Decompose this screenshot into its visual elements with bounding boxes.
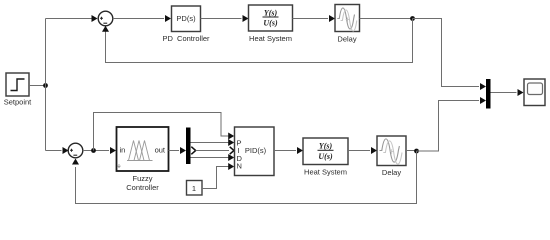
- svg-text:PID(s): PID(s): [245, 146, 267, 155]
- wire PID to HS2: [274, 150, 296, 152]
- wire constant to N: [202, 167, 233, 189]
- svg-text:Y(s): Y(s): [319, 142, 333, 151]
- wire trunk to sum1: [46, 18, 93, 20]
- svg-text:Heat System: Heat System: [304, 168, 347, 177]
- wire vertical trunk: [45, 19, 47, 151]
- wire sum2 junction up to PID input 1: [94, 113, 234, 151]
- wire mux to scope: [491, 92, 517, 94]
- svg-text:Y(s): Y(s): [264, 8, 278, 17]
- demux output chevron: [191, 147, 195, 155]
- wire junction to mux top: [413, 19, 480, 87]
- wire sum1 to PD: [113, 18, 164, 20]
- Scope block: [524, 79, 545, 106]
- node setpoint junction: [43, 83, 48, 88]
- svg-text:Delay: Delay: [337, 35, 356, 44]
- wire demux to I: [196, 150, 229, 152]
- svg-text:Heat System: Heat System: [249, 34, 292, 43]
- svg-text:U(s): U(s): [263, 19, 278, 28]
- constant 1 block: [187, 181, 203, 196]
- wire Delay2 to junction: [406, 150, 417, 152]
- Fuzzy Controller block: [117, 127, 169, 192]
- PD Controller block: [162, 6, 210, 43]
- Heat System 1 block: [249, 5, 293, 43]
- svg-text:Setpoint: Setpoint: [4, 98, 32, 107]
- Delay 2 block: [377, 136, 406, 177]
- sum S1: [98, 11, 113, 26]
- wire junction to mux bottom: [417, 101, 480, 152]
- wire PD to HeatSystem1: [201, 18, 242, 20]
- node after Delay1: [410, 16, 415, 21]
- svg-text:1: 1: [192, 184, 196, 193]
- membership triangles: [127, 160, 153, 162]
- svg-text:PD(s): PD(s): [176, 14, 196, 23]
- mux bar: [486, 79, 491, 109]
- svg-text:N: N: [237, 161, 242, 170]
- wire HS1 to Delay1: [293, 18, 329, 20]
- svg-text:Delay: Delay: [382, 168, 401, 177]
- wire demux to P: [191, 142, 234, 144]
- wire feedback bottom loop: [76, 151, 417, 204]
- wire trunk to sum2: [46, 150, 62, 152]
- sum S2: [68, 143, 83, 158]
- svg-text:in: in: [120, 146, 126, 155]
- wire fuzzy to demux: [169, 150, 180, 152]
- node after Delay2: [414, 149, 419, 154]
- wire Delay1 to junction: [360, 18, 413, 20]
- Delay 1 block (transport delay): [335, 5, 360, 44]
- svg-text:U(s): U(s): [318, 152, 333, 161]
- demux bar: [186, 128, 191, 165]
- wire HS2 to Delay2: [348, 150, 370, 152]
- svg-text:out: out: [155, 146, 166, 155]
- wire feedback top loop: [106, 19, 413, 63]
- node after sum2: [91, 148, 96, 153]
- svg-text:Fuzzy: Fuzzy: [132, 174, 152, 183]
- svg-text:Controller: Controller: [126, 183, 159, 192]
- wire setpoint to junction: [29, 85, 46, 87]
- Heat System 2 block: [303, 138, 348, 177]
- wire demux to D: [191, 157, 234, 159]
- step source Setpoint: [4, 73, 32, 107]
- PID block: [235, 127, 275, 176]
- svg-text:PD Controller: PD Controller: [162, 34, 210, 43]
- wire sum2 to fuzzy: [83, 150, 109, 152]
